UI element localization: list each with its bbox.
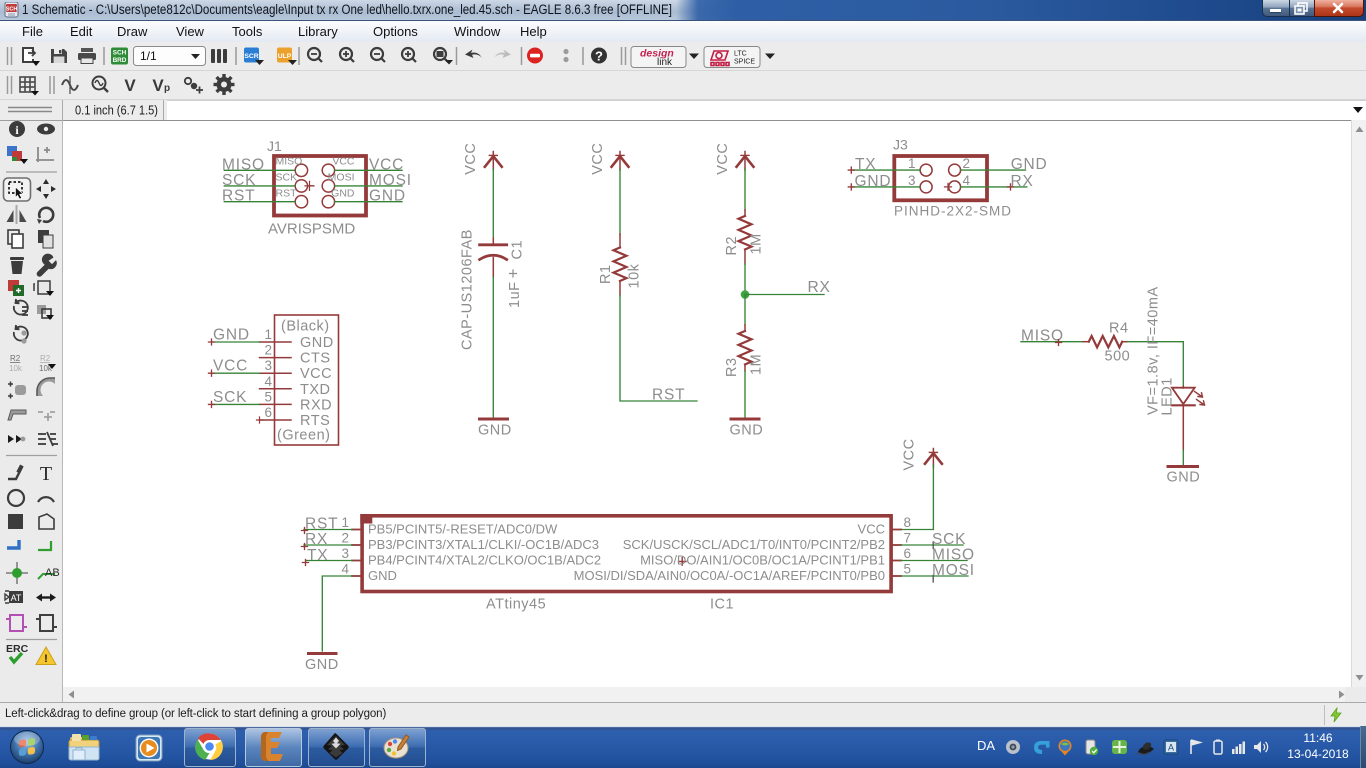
IC1 pin number 3: [341, 546, 349, 561]
net label VCC right of J1: [369, 156, 404, 173]
svg-text:VCC: VCC: [463, 143, 479, 175]
LED1 anode lead: [1182, 386, 1184, 388]
svg-text:GND: GND: [1167, 470, 1201, 486]
IC1 pin number 6: [904, 546, 912, 561]
svg-text:RST: RST: [276, 187, 298, 199]
svg-text:6: 6: [264, 405, 272, 420]
connector J3 pin 2: [949, 164, 961, 176]
magnifier sine: [93, 77, 106, 90]
node junction RX divider: [741, 290, 750, 299]
svg-text:MOSI/DI/SDA/AIN0/OC0A/-OC1A/AR: MOSI/DI/SDA/AIN0/OC0A/-OC1A/AREF/PCINT0/…: [574, 568, 885, 583]
svg-text:GND: GND: [368, 568, 397, 583]
net label MISO left of J1: [222, 156, 265, 173]
ground label below C1: [478, 423, 512, 439]
svg-text:4: 4: [963, 173, 971, 188]
svg-text:GND: GND: [213, 327, 250, 344]
IC1 pin 6 stub: [891, 560, 901, 562]
svg-text:SPICE: SPICE: [734, 59, 755, 66]
net label RX at IC1: [305, 531, 328, 548]
supply VCC label above C1: [463, 143, 479, 175]
svg-text:GND: GND: [478, 423, 512, 439]
wire net SCK to J1: [224, 185, 295, 187]
resistor R1 bottom lead: [619, 281, 621, 296]
svg-text:MISO: MISO: [276, 156, 303, 168]
IC1 origin square: [360, 514, 372, 524]
svg-text:?: ?: [595, 48, 603, 63]
grid icon: [20, 77, 35, 92]
connector J1 origin cross: [305, 181, 314, 190]
connector J3 pin 4: [949, 181, 961, 193]
svg-text:TX: TX: [307, 547, 328, 564]
copy to library: [38, 281, 50, 294]
resistor R1 top lead: [619, 234, 621, 248]
supply VCC above R2: [737, 152, 754, 171]
resistor R4 name label: [1109, 321, 1129, 337]
IC1 ATtiny45 body: [362, 516, 891, 592]
svg-text:RX: RX: [1011, 173, 1034, 190]
resistor R4 right lead: [1122, 341, 1128, 343]
wire net MOSI from J1: [335, 185, 402, 187]
FTDI pin name VCC: [300, 366, 332, 382]
IC1 pin number 8: [904, 515, 912, 530]
wire net MISO from IC1 pin 6: [901, 560, 967, 562]
LED1 cathode lead: [1182, 405, 1184, 450]
svg-text:V: V: [152, 76, 164, 95]
resistor R2 value 1M: [749, 233, 765, 254]
svg-text:MOSI: MOSI: [369, 172, 412, 189]
connector J1 pin 6 GND: [322, 196, 334, 208]
net label GND right of J1: [369, 188, 406, 205]
svg-text:VCC: VCC: [858, 522, 885, 537]
wire C1 to GND: [492, 277, 494, 417]
paint button: [369, 728, 426, 767]
svg-text:(Green): (Green): [277, 428, 330, 444]
gear: [214, 74, 235, 95]
net label RX right of J3: [1011, 173, 1034, 190]
capacitor C1 bottom plate (curved): [480, 255, 507, 259]
miter2: [8, 410, 26, 420]
net label VCC at FTDI: [213, 358, 248, 375]
resistor R1 zigzag: [614, 248, 627, 281]
svg-text:6: 6: [904, 546, 912, 561]
SCH/BRD: [111, 48, 128, 65]
svg-text:RST: RST: [222, 188, 255, 205]
capacitor C1 bottom lead: [492, 258, 494, 278]
FTDI serial header body: [275, 315, 339, 445]
J3 pin number 2: [963, 156, 971, 171]
svg-text:1: 1: [908, 156, 916, 171]
connector J1 pin 4 MOSI: [322, 180, 334, 192]
svg-text:SCH: SCH: [6, 7, 18, 13]
svg-text:5: 5: [264, 389, 272, 404]
net tool: [38, 541, 51, 550]
svg-text:TX: TX: [855, 156, 876, 173]
wire net GND to J3 pin 3: [848, 184, 920, 190]
supply VCC label above IC1: [902, 438, 918, 470]
supply VCC above IC1: [925, 449, 942, 468]
svg-text:VCC: VCC: [300, 366, 332, 382]
ground label below IC1: [305, 657, 339, 673]
J1 inner pin name RST: [276, 187, 298, 199]
LED1 triangle: [1172, 388, 1195, 404]
supply VCC above C1: [485, 152, 502, 171]
LTC SPICE button: [704, 47, 760, 68]
J3 pin number 3: [908, 173, 916, 188]
resistor R4 value 500: [1105, 349, 1131, 365]
svg-text:MISO: MISO: [222, 156, 265, 173]
resistor R3 value 1M: [749, 354, 765, 375]
wire net MOSI from IC1 pin 5: [901, 576, 968, 583]
connector J1 pin 5 RST: [295, 196, 307, 208]
ground label below LED1: [1167, 470, 1201, 486]
net label GND left of J3: [855, 173, 892, 190]
svg-text:RST: RST: [652, 387, 685, 404]
svg-text:CTS: CTS: [300, 351, 331, 367]
IC1 origin cross: [679, 558, 687, 566]
LED1 value VF=1.8v, IF=40mA: [1146, 286, 1162, 415]
IC1 pin name PB0: [574, 568, 885, 583]
FTDI label (Green): [277, 428, 330, 444]
net label MISO at R4: [1021, 328, 1064, 345]
info: [9, 121, 25, 137]
mirror: [16, 205, 18, 224]
net label RST at R1: [652, 387, 685, 404]
wire net SCK from IC1 pin 7: [901, 542, 963, 549]
J1 inner pin name GND: [331, 187, 355, 199]
svg-text:5: 5: [904, 561, 912, 576]
svg-text:R2: R2: [40, 354, 51, 363]
capacitor C1 top plate: [480, 243, 507, 246]
attribute tool: [9, 591, 23, 603]
net label RST left of J1: [222, 188, 255, 205]
columns icon: [211, 49, 227, 63]
net label MISO at IC1: [932, 547, 975, 564]
probe nodes: [185, 78, 191, 84]
net label TX at J3: [855, 156, 876, 173]
svg-text:PINHD-2X2-SMD: PINHD-2X2-SMD: [894, 204, 1012, 219]
pinswap: [36, 594, 56, 602]
net label SCK at IC1: [932, 531, 966, 548]
magnifiers: [308, 48, 448, 62]
svg-text:VCC: VCC: [902, 438, 918, 470]
net label MOSI right of J1: [369, 172, 412, 189]
svg-text:SCK/USCK/SCL/ADC1/T0/INT0/PCIN: SCK/USCK/SCL/ADC1/T0/INT0/PCINT2/PB2: [623, 537, 885, 552]
svg-text:4: 4: [341, 561, 349, 576]
inkscape button: [308, 728, 365, 767]
svg-text:GND: GND: [305, 657, 339, 673]
svg-text:8: 8: [904, 515, 912, 530]
resistor R3 zigzag: [739, 331, 752, 364]
svg-text:1uF: 1uF: [507, 282, 523, 309]
wire net RST to J1: [224, 201, 295, 203]
replace: [37, 305, 46, 314]
svg-text:7: 7: [904, 530, 912, 545]
svg-text:(Black): (Black): [281, 319, 330, 335]
wire net RX from J3 pin 4: [961, 184, 1027, 190]
IC1 pin number 1: [341, 515, 349, 530]
svg-text:4: 4: [264, 374, 272, 389]
resistor R1 name label: [598, 264, 614, 284]
resistor R3 top lead: [744, 325, 746, 331]
FTDI pin name GND: [300, 335, 334, 351]
svg-text:3: 3: [908, 173, 916, 188]
svg-text:T: T: [40, 463, 52, 485]
supply VCC label above R1: [590, 143, 606, 175]
svg-text:1M: 1M: [749, 233, 765, 254]
svg-text:AVRISPSMD: AVRISPSMD: [268, 220, 355, 237]
svg-text:R3: R3: [724, 357, 740, 377]
svg-text:R4: R4: [1109, 321, 1129, 337]
ground symbol below R3: [731, 418, 759, 421]
svg-text:GND: GND: [1011, 156, 1048, 173]
svg-text:GND: GND: [300, 335, 334, 351]
IC1 pin name PB5: [368, 522, 558, 537]
ground symbol below LED1: [1168, 465, 1198, 468]
connector J1 pin 2 VCC: [322, 164, 334, 176]
svg-text:2: 2: [264, 343, 272, 358]
svg-text:VCC: VCC: [715, 143, 731, 175]
svg-text:500: 500: [1105, 349, 1131, 365]
resistor R4 left lead: [1083, 341, 1089, 343]
connector J1 name label: [267, 138, 282, 154]
rect tool: [8, 514, 23, 529]
resistor R1 value 10k: [627, 263, 643, 288]
IC1 pin 8 stub: [891, 529, 901, 531]
svg-text:MISO/DO/AIN1/OC0B/OC1A/PCINT1/: MISO/DO/AIN1/OC0B/OC1A/PCINT1/PB1: [640, 553, 885, 568]
wire net SCK to FTDI pin 5: [209, 401, 260, 407]
wire R1 to RST: [620, 296, 697, 402]
FTDI pin number 1: [264, 327, 272, 342]
connector J3 value PINHD-2X2-SMD: [894, 204, 1012, 219]
errors: [36, 647, 56, 665]
svg-text:R1: R1: [598, 264, 614, 284]
IC1 pin 4 stub: [352, 575, 362, 577]
FTDI pin 6 stub: [257, 417, 292, 423]
J3 pin number 1: [908, 156, 916, 171]
svg-text:GND: GND: [331, 187, 355, 199]
ground label below R3: [730, 423, 764, 439]
capacitor C1 polarity plus: [510, 270, 517, 277]
IC1 pin name PB4: [368, 553, 601, 568]
junction tool: [6, 562, 28, 584]
FTDI pin name RTS: [300, 413, 330, 429]
trash: [10, 257, 24, 274]
svg-text:2: 2: [341, 530, 349, 545]
FTDI label (Black): [281, 319, 330, 335]
bus tool: [7, 540, 19, 548]
net label GND at FTDI: [213, 327, 250, 344]
wire net VCC from J1: [335, 169, 402, 171]
connector J3 pin 3: [920, 181, 932, 193]
split arrows: [8, 435, 22, 443]
svg-text:p: p: [164, 83, 170, 94]
miter: [37, 378, 55, 396]
chrome button: [184, 728, 236, 767]
FTDI pin number 3: [264, 358, 272, 373]
svg-text:SCK: SCK: [276, 172, 298, 184]
J1 inner pin name VCC: [332, 156, 355, 168]
svg-text:VCC: VCC: [332, 156, 355, 168]
wire R3 to GND: [744, 371, 746, 417]
resistor R2 zigzag: [739, 216, 752, 249]
undo / redo: [465, 50, 482, 59]
net label SCK left of J1: [222, 172, 256, 189]
svg-text:C1: C1: [510, 240, 526, 260]
svg-text:IC1: IC1: [710, 597, 734, 613]
net label GND right of J3: [1011, 156, 1048, 173]
IC1 pin number 5: [904, 561, 912, 576]
FTDI pin number 2: [264, 343, 272, 358]
wire net MISO to J1: [224, 169, 295, 171]
add part: [8, 280, 19, 291]
svg-text:RX: RX: [305, 531, 328, 548]
IC1 pin number 2: [341, 530, 349, 545]
svg-text:MISO: MISO: [932, 547, 975, 564]
wire VCC to R1: [619, 169, 621, 234]
svg-text:GND: GND: [369, 188, 406, 205]
FTDI pin 3 stub: [260, 372, 292, 374]
LED1 name label: [1160, 377, 1176, 415]
IC1 package label ATtiny45: [486, 597, 546, 613]
svg-text:RST: RST: [305, 516, 338, 533]
connector J1 pin 3 SCK: [295, 180, 313, 192]
ground symbol below C1: [480, 418, 508, 421]
resistor R2 top lead: [744, 210, 746, 216]
wire junction to RX label: [745, 294, 824, 296]
connector J3 pin 1: [920, 164, 932, 176]
svg-text:J3: J3: [893, 137, 908, 153]
capacitor C1 package label CAP-US1206FAB: [460, 229, 476, 350]
wire VCC to IC1 pin 8: [901, 465, 933, 530]
svg-text:RTS: RTS: [300, 413, 330, 429]
ULP: [277, 48, 292, 63]
IC1 pin number 4: [341, 561, 349, 576]
explorer: [68, 733, 104, 763]
wire net TX to IC1 pin 3: [303, 560, 353, 566]
IC1 name label: [710, 597, 734, 613]
dots: [563, 49, 568, 54]
supply VCC above R1: [612, 152, 629, 171]
svg-text:AB: AB: [45, 567, 60, 579]
svg-text:link: link: [657, 57, 673, 68]
save icon: [51, 49, 67, 63]
arc tool: [38, 497, 54, 502]
capacitor C1 value 1uF: [507, 282, 523, 309]
IC1 pin name VCC: [858, 522, 885, 537]
FTDI pin name TXD: [300, 382, 331, 398]
svg-text:3: 3: [341, 546, 349, 561]
svg-text:SCR: SCR: [244, 53, 258, 60]
FTDI pin number 6: [264, 405, 272, 420]
layers: [7, 146, 17, 156]
svg-text:RXD: RXD: [300, 397, 332, 413]
svg-text:PB3/PCINT3/XTAL1/CLKI/-OC1B/AD: PB3/PCINT3/XTAL1/CLKI/-OC1B/ADC3: [368, 537, 599, 552]
svg-text:V: V: [124, 76, 136, 95]
design link button: [631, 47, 686, 68]
IC1 pin name PB1: [640, 553, 885, 568]
wire VCC to R2: [744, 169, 746, 210]
connector J1 pin 1 MISO: [295, 164, 307, 176]
wire IC1 pin 4 to GND: [322, 576, 352, 651]
svg-text:1M: 1M: [749, 354, 765, 375]
svg-text:!: !: [44, 653, 48, 665]
wire VCC to C1: [492, 169, 494, 238]
IC1 pin 2 stub: [352, 544, 362, 546]
tray: [977, 738, 995, 753]
connector J3 body: [894, 156, 987, 200]
wire R4 to LED1: [1128, 342, 1184, 387]
name: [9, 354, 53, 373]
split lines: [38, 432, 58, 446]
svg-text:ATtiny45: ATtiny45: [486, 597, 546, 613]
svg-text:AT: AT: [11, 593, 22, 603]
svg-text:R2: R2: [10, 354, 21, 363]
FTDI pin 1 stub: [260, 341, 292, 343]
wire net VCC to FTDI pin 3: [209, 370, 260, 376]
svg-text:PB5/PCINT5/-RESET/ADC0/DW: PB5/PCINT5/-RESET/ADC0/DW: [368, 522, 558, 537]
dimension: [36, 147, 54, 162]
FTDI pin 2 stub: [260, 357, 292, 359]
net label RST at IC1: [305, 516, 338, 533]
FTDI pin 5 stub: [260, 403, 292, 405]
wire LED1 to GND: [1182, 450, 1184, 465]
combo 1/1: [134, 47, 206, 66]
net label RX at divider: [808, 279, 831, 296]
svg-text:ERC: ERC: [6, 643, 29, 655]
open icon: [23, 48, 35, 62]
wire net TX to J3 pin 1: [848, 167, 920, 173]
IC1 pin 7 stub: [891, 544, 901, 546]
svg-text:1: 1: [341, 515, 349, 530]
move: [36, 179, 56, 199]
svg-text:MOSI: MOSI: [932, 562, 975, 579]
svg-text:RX: RX: [808, 279, 831, 296]
resistor R2 bottom lead: [744, 250, 746, 265]
svg-text:A: A: [1168, 743, 1174, 753]
wire net GND from J3 pin 2: [961, 169, 1026, 171]
J1 inner pin name MOSI: [328, 172, 355, 184]
J3 pin number 4: [963, 173, 971, 188]
group tool pressed: [4, 178, 31, 201]
svg-text:J1: J1: [267, 138, 282, 154]
wire junction to R3: [744, 295, 746, 326]
connector J3 name label: [893, 137, 908, 153]
J1 inner pin name SCK: [276, 172, 298, 184]
start orb: [9, 729, 45, 765]
svg-text:SCK: SCK: [213, 389, 247, 406]
net label TX at IC1: [307, 547, 328, 564]
svg-text:VCC: VCC: [213, 358, 248, 375]
svg-text:SCK: SCK: [932, 531, 966, 548]
wire tool: [8, 467, 22, 479]
svg-text:R2: R2: [724, 236, 740, 256]
wmp: [133, 733, 167, 763]
svg-text:10k: 10k: [9, 364, 23, 373]
FTDI pin number 4: [264, 374, 272, 389]
svg-text:1/1: 1/1: [140, 49, 157, 63]
copy: [8, 230, 23, 248]
capacitor C1 name label: [510, 240, 526, 260]
gateswap: [6, 615, 27, 631]
svg-text:VCC: VCC: [590, 143, 606, 175]
connector J3 origin cross: [945, 183, 952, 190]
ground symbol below IC1: [309, 652, 337, 655]
connector J1 body: [274, 156, 366, 216]
LED1 cathode bar: [1172, 404, 1195, 406]
smash: [8, 382, 26, 399]
polygon tool: [39, 514, 54, 529]
svg-text:GND: GND: [855, 173, 892, 190]
